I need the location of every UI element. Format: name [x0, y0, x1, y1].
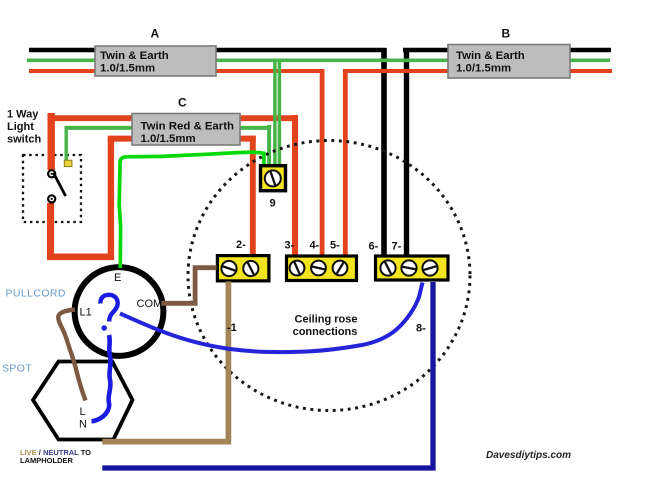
wire: green earth drop 1 to terminal 9	[273, 59, 277, 168]
wire: blue neutral terminal 8 down and across	[102, 282, 433, 468]
terminal block 1 (terminals 1-2)	[217, 256, 269, 281]
junction label box A	[95, 46, 216, 76]
svg-text:B: B	[502, 27, 511, 41]
switch contact bottom	[48, 195, 55, 202]
svg-text:N: N	[79, 419, 87, 431]
svg-text:Twin & Earth: Twin & Earth	[456, 50, 525, 62]
wire: blue wavy pullcord to terminal 8	[120, 283, 423, 353]
svg-text:9: 9	[270, 198, 276, 210]
svg-text:8-: 8-	[416, 323, 426, 335]
svg-text:Twin & Earth: Twin & Earth	[100, 50, 169, 62]
switch terminal (yellow)	[64, 160, 72, 166]
svg-text:PULLCORD: PULLCORD	[6, 288, 66, 300]
wire: earth green horizontal cable A to cable B	[27, 58, 610, 62]
ceiling rose dotted outline	[188, 141, 470, 411]
wire: cable B red live horizontal	[345, 69, 612, 73]
svg-text:5-: 5-	[330, 240, 340, 252]
svg-text:Twin Red & Earth: Twin Red & Earth	[141, 121, 234, 133]
svg-text:6-: 6-	[369, 241, 379, 253]
svg-text:SPOT: SPOT	[2, 363, 32, 375]
wire: green drop to terminal 9	[267, 125, 271, 167]
pullcord switch circle	[75, 267, 164, 356]
terminal block 3 (terminals 6-7-8)	[376, 256, 449, 280]
svg-text:L1: L1	[80, 307, 92, 319]
junction label box B	[448, 45, 570, 79]
lampholder hexagon	[33, 362, 133, 440]
svg-text:COM: COM	[137, 298, 163, 310]
svg-text:4-: 4-	[310, 240, 320, 252]
wire: brown wavy pullcord L1 to lampholder L	[58, 310, 85, 401]
wire: brown COM to terminal block 1	[161, 268, 217, 304]
svg-text:3-: 3-	[285, 240, 295, 252]
wire: red switch feed horizontal to terminal 3	[48, 115, 298, 121]
switch contact top	[48, 170, 55, 177]
wire: switched live horizontal to terminal 2	[108, 136, 256, 142]
junction label box C	[132, 114, 240, 146]
blue question mark in pullcord	[100, 295, 117, 322]
wire: blue wavy pullcord to lampholder N	[92, 335, 111, 421]
wire: switch bottom red drop	[47, 203, 54, 260]
svg-text:1.0/1.5mm: 1.0/1.5mm	[141, 133, 196, 145]
svg-text:A: A	[151, 27, 160, 41]
svg-text:2-: 2-	[236, 239, 246, 251]
wire: cable A red live horizontal	[29, 69, 322, 73]
terminal block 2 (terminals 3-4-5)	[287, 256, 357, 281]
svg-text:connections: connections	[293, 326, 358, 338]
wire: brown live drop terminal 1 to lampholder line	[102, 282, 228, 442]
wire: black drop from cable A to terminal 6	[381, 48, 387, 255]
svg-text:L: L	[80, 406, 86, 418]
wire: switch top red riser	[48, 113, 55, 170]
switch dotted enclosure	[23, 155, 81, 222]
wire: green earth horizontal switch to terminal 9	[66, 126, 271, 130]
wire: green earth drop 2 to terminal 9	[278, 59, 282, 168]
wire: cable B black live horizontal	[403, 48, 611, 52]
wire: red drop cable A to terminal 4	[320, 69, 325, 255]
svg-text:Davesdiytips.com: Davesdiytips.com	[486, 450, 571, 461]
wire: red drop to terminal 2	[250, 136, 256, 255]
wire: cable A black live horizontal	[29, 48, 386, 52]
wire: black drop from cable B to terminal 7	[404, 48, 409, 255]
svg-text:7-: 7-	[392, 241, 402, 253]
switch lever	[53, 173, 65, 196]
svg-text:LAMPHOLDER: LAMPHOLDER	[20, 456, 73, 465]
svg-text:Light: Light	[7, 121, 34, 133]
svg-text:switch: switch	[7, 134, 42, 146]
wire: switch earth green riser	[64, 126, 67, 162]
wire: earth bright green from pullcord E to terminal 9	[119, 152, 264, 268]
svg-text:1.0/1.5mm: 1.0/1.5mm	[456, 63, 511, 75]
svg-text:E: E	[114, 272, 121, 284]
svg-text:C: C	[178, 96, 187, 110]
svg-text:1.0/1.5mm: 1.0/1.5mm	[100, 63, 155, 75]
svg-text:1 Way: 1 Way	[7, 109, 39, 121]
wire: red drop cable B to terminal 5	[343, 69, 348, 255]
wire: red return horizontal below switch	[47, 253, 114, 260]
terminal 9 earth block	[261, 166, 286, 191]
svg-text:Ceiling rose: Ceiling rose	[295, 314, 358, 326]
wire: red drop to terminal 3	[292, 115, 298, 255]
wire: red return riser	[108, 138, 114, 260]
svg-text:-1: -1	[227, 322, 237, 334]
